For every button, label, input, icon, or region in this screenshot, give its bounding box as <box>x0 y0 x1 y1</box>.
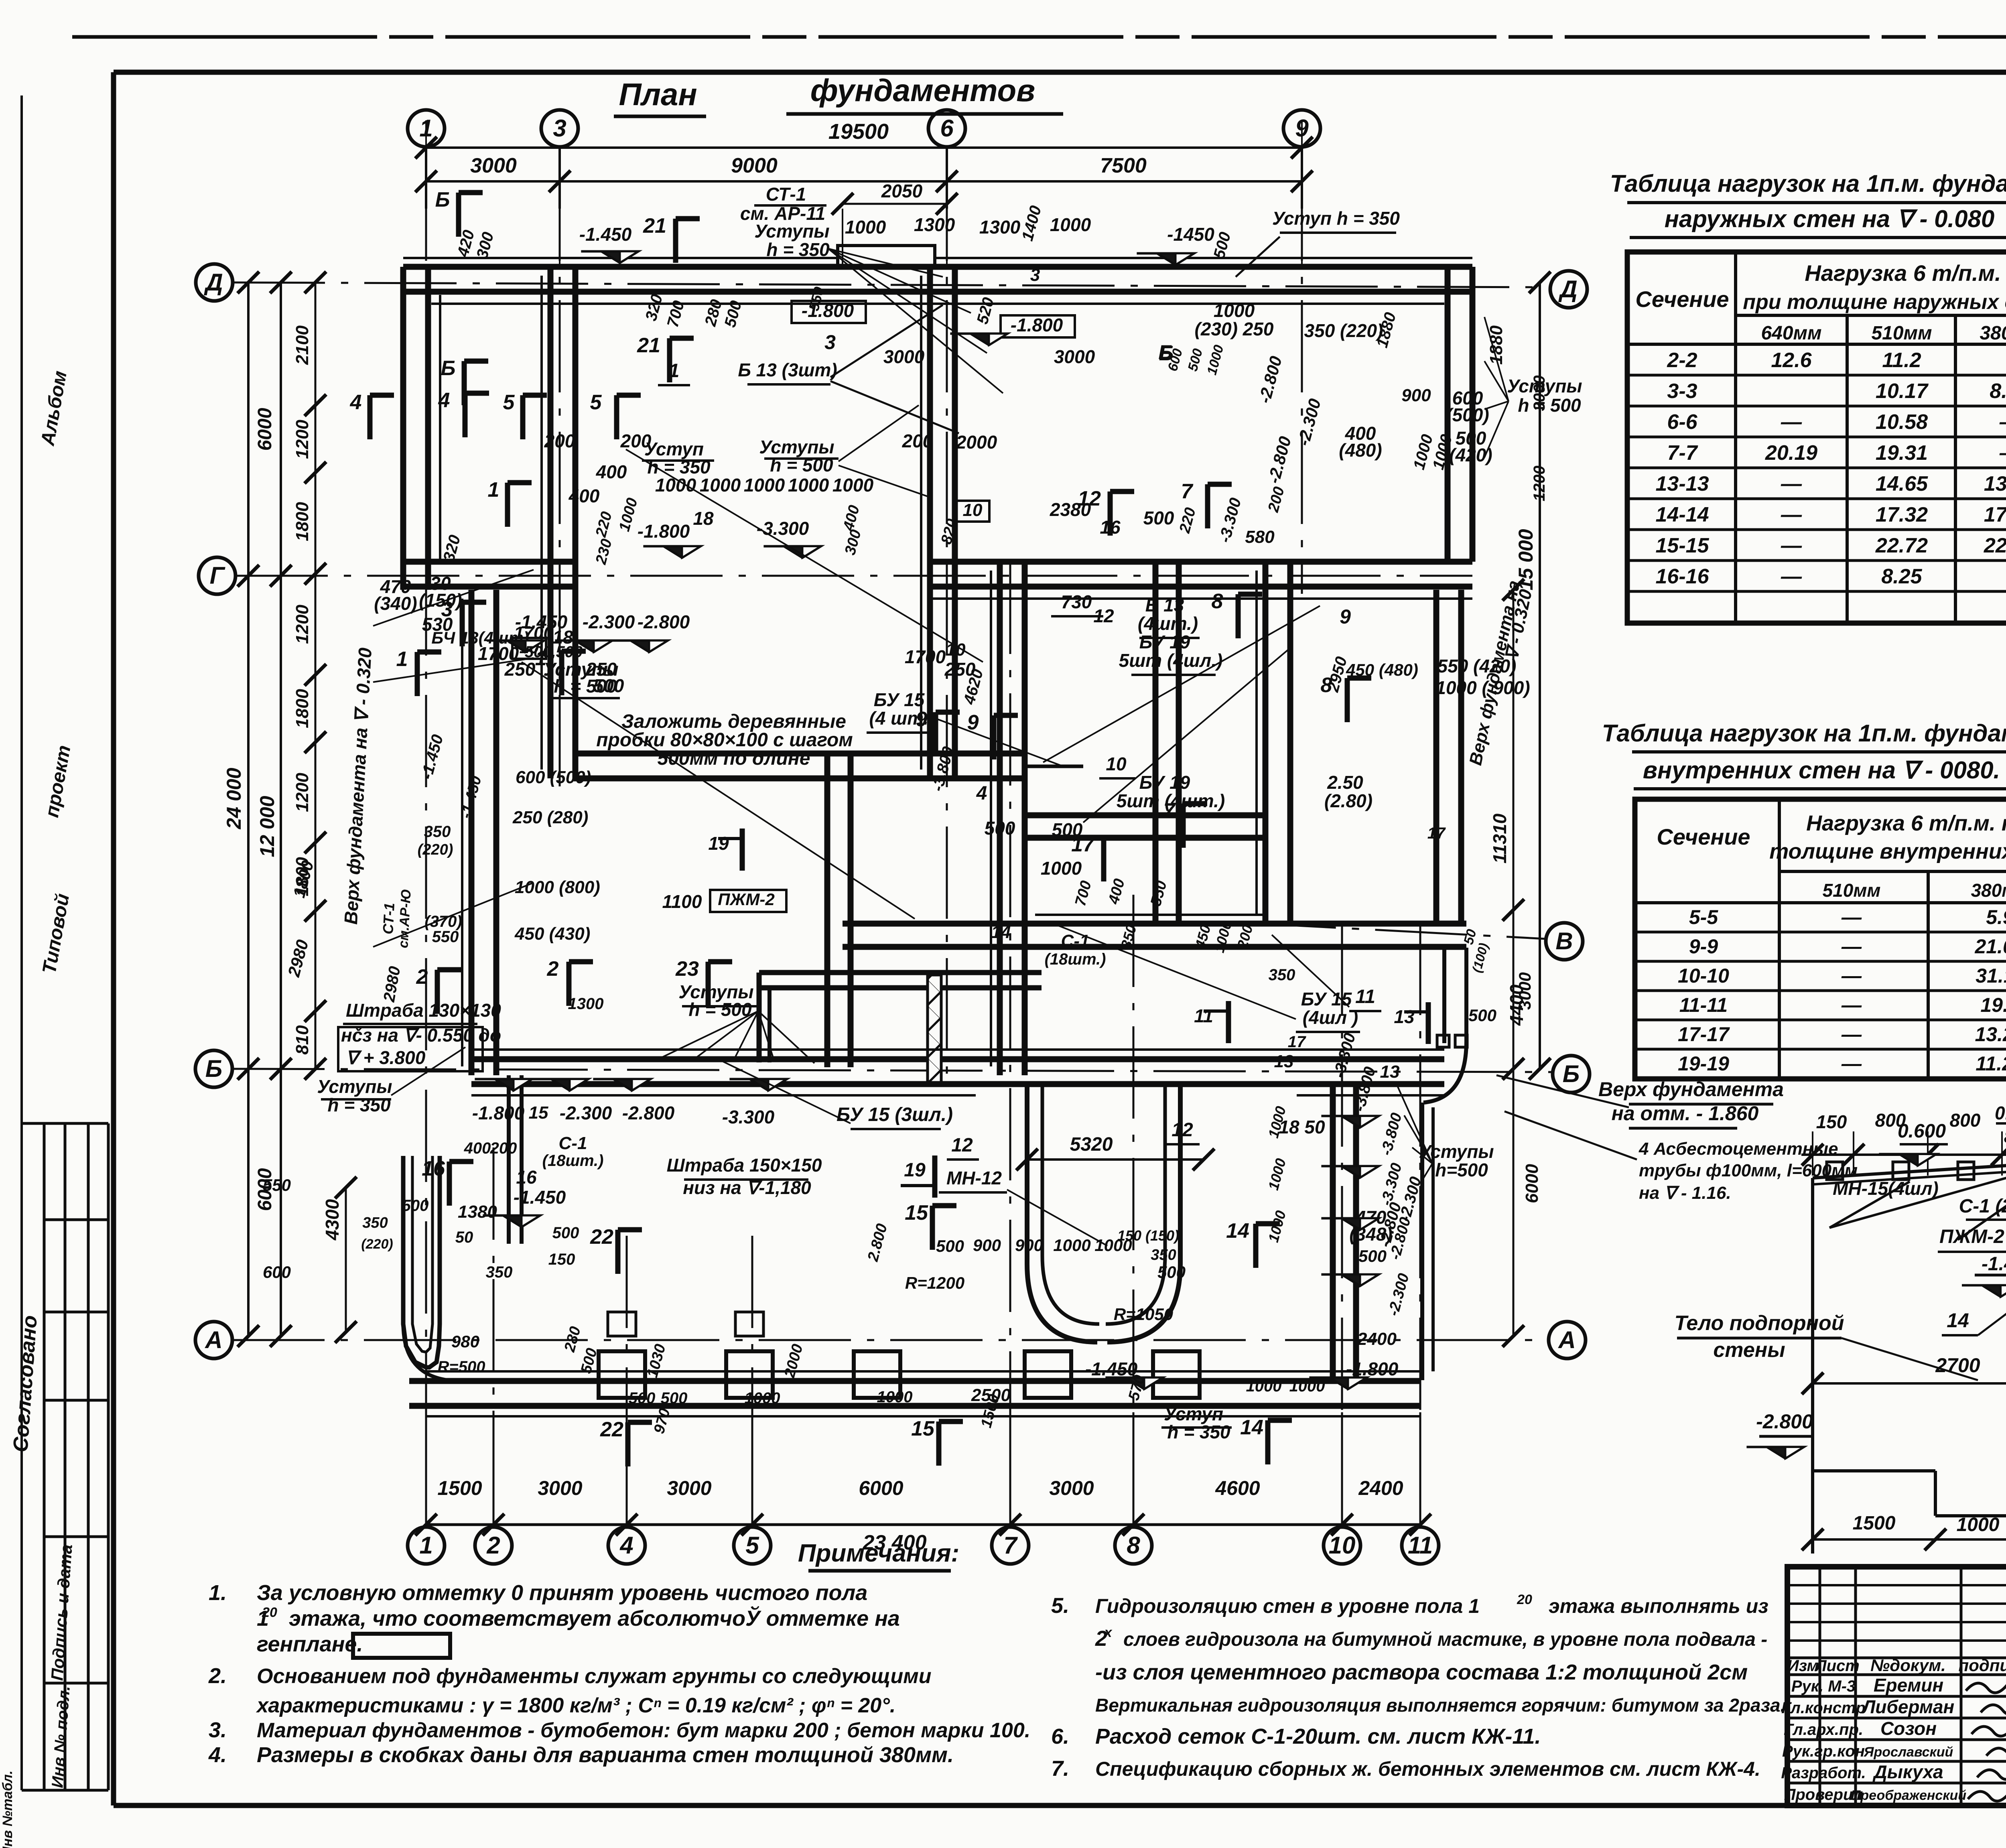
svg-text:3000: 3000 <box>1531 376 1548 411</box>
svg-text:стены: стены <box>1713 1338 1785 1362</box>
svg-text:18: 18 <box>693 508 714 529</box>
svg-text:Тело подпорной: Тело подпорной <box>1674 1312 1844 1335</box>
svg-text:22.72: 22.72 <box>1875 534 1928 557</box>
svg-text:12: 12 <box>1078 487 1101 510</box>
svg-text:-1.800: -1.800 <box>1011 315 1063 335</box>
svg-text:3000: 3000 <box>538 1477 582 1499</box>
svg-text:5: 5 <box>590 391 602 414</box>
svg-text:-1450: -1450 <box>1167 224 1214 245</box>
svg-text:на ∇ - 1.16.: на ∇ - 1.16. <box>1639 1183 1731 1203</box>
svg-text:7.: 7. <box>1051 1757 1069 1781</box>
svg-text:6000: 6000 <box>254 408 276 451</box>
svg-text:-2.300: -2.300 <box>560 1103 612 1123</box>
svg-text:Б: Б <box>441 357 456 380</box>
svg-text:R=1200: R=1200 <box>905 1273 964 1292</box>
svg-text:11: 11 <box>1355 986 1375 1007</box>
svg-text:Материал фундаментов - буто: Материал фундаментов - бутобетон: бут ма… <box>257 1719 1030 1742</box>
svg-text:17: 17 <box>1071 833 1095 856</box>
svg-text:1300: 1300 <box>914 214 955 235</box>
svg-text:220: 220 <box>1176 506 1199 535</box>
svg-text:22: 22 <box>590 1225 613 1249</box>
svg-text:500: 500 <box>1185 347 1206 373</box>
svg-text:10.17: 10.17 <box>1876 380 1929 403</box>
svg-text:Штраба 150×150: Штраба 150×150 <box>667 1155 822 1176</box>
svg-text:2: 2 <box>486 1532 500 1559</box>
svg-text:500: 500 <box>985 818 1015 839</box>
svg-text:1300: 1300 <box>568 995 604 1013</box>
svg-text:х: х <box>1104 1625 1113 1640</box>
svg-text:3-3: 3-3 <box>1667 380 1697 403</box>
svg-text:2: 2 <box>547 957 559 981</box>
svg-text:—: — <box>1781 503 1802 526</box>
svg-text:0.8 50: 0.8 50 <box>1995 1103 2006 1123</box>
svg-text:1: 1 <box>669 360 680 382</box>
svg-text:13: 13 <box>1274 1052 1294 1071</box>
svg-text:400: 400 <box>596 461 627 482</box>
svg-text:(220): (220) <box>418 841 453 858</box>
svg-text:3000: 3000 <box>1049 1477 1094 1499</box>
svg-text:19500: 19500 <box>828 120 889 144</box>
svg-text:Подпись и дата: Подпись и дата <box>47 1544 76 1681</box>
svg-text:h = 350: h = 350 <box>327 1095 391 1115</box>
svg-text:5: 5 <box>503 391 515 414</box>
svg-text:БУ 19: БУ 19 <box>1139 772 1190 793</box>
svg-text:С-1: С-1 <box>559 1133 587 1153</box>
svg-text:0.600: 0.600 <box>1898 1121 1946 1142</box>
svg-text:1800: 1800 <box>292 689 312 728</box>
svg-text:10: 10 <box>963 500 983 520</box>
svg-text:8: 8 <box>1127 1532 1140 1559</box>
svg-text:20: 20 <box>1517 1592 1532 1607</box>
svg-text:350: 350 <box>424 823 451 841</box>
svg-text:380мм: 380мм <box>1971 880 2006 901</box>
svg-text:500: 500 <box>629 1389 656 1407</box>
svg-text:Еремин: Еремин <box>1874 1675 1943 1696</box>
svg-text:8: 8 <box>1212 590 1223 613</box>
svg-text:Б 13: Б 13 <box>1145 595 1184 615</box>
svg-text:В: В <box>1555 928 1573 954</box>
svg-text:13.21: 13.21 <box>1975 1023 2006 1046</box>
svg-text:Б: Б <box>435 188 450 211</box>
svg-text:350: 350 <box>486 1263 513 1281</box>
svg-text:14-14: 14-14 <box>1656 503 1709 526</box>
svg-text:Инв №табл.: Инв №табл. <box>0 1771 15 1848</box>
svg-text:17: 17 <box>1427 824 1446 842</box>
svg-text:-1.800: -1.800 <box>472 1103 525 1123</box>
svg-text:Альбом: Альбом <box>37 369 71 447</box>
svg-text:Расход сеток С-1-20шт. см.: Расход сеток С-1-20шт. см. лист КЖ-11. <box>1095 1724 1541 1748</box>
svg-text:6: 6 <box>940 115 954 142</box>
svg-text:12 000: 12 000 <box>256 796 278 857</box>
svg-text:280: 280 <box>561 1325 584 1354</box>
svg-text:230: 230 <box>593 537 615 567</box>
svg-text:-1.800: -1.800 <box>802 300 854 321</box>
svg-text:1.: 1. <box>209 1581 227 1605</box>
svg-text:20.19: 20.19 <box>1765 441 1817 465</box>
svg-text:9: 9 <box>916 708 928 731</box>
svg-text:21: 21 <box>637 334 660 357</box>
svg-text:Созон: Созон <box>1880 1718 1937 1739</box>
svg-text:-1.450: -1.450 <box>418 733 447 781</box>
svg-text:400: 400 <box>464 1139 491 1157</box>
svg-text:8.75: 8.75 <box>1990 380 2006 403</box>
svg-text:12.6: 12.6 <box>1771 349 1812 372</box>
svg-text:Таблица нагрузок на 1п.м. фун: Таблица нагрузок на 1п.м. фундаментов <box>1602 720 2006 747</box>
svg-text:фундаментов: фундаментов <box>810 73 1035 108</box>
svg-text:трубы ф100мм, l=600мм: трубы ф100мм, l=600мм <box>1639 1161 1858 1180</box>
svg-text:11.29: 11.29 <box>1976 1052 2006 1075</box>
svg-text:19.31: 19.31 <box>1876 441 1928 465</box>
svg-text:19: 19 <box>904 1160 926 1181</box>
svg-text:8.25: 8.25 <box>1881 565 1922 588</box>
svg-text:2100: 2100 <box>292 325 312 365</box>
svg-text:ПЖМ-2: ПЖМ-2 <box>1939 1226 2004 1247</box>
svg-text:500: 500 <box>1143 508 1174 528</box>
svg-text:Инв № подл.: Инв № подл. <box>49 1685 73 1788</box>
svg-text:3.: 3. <box>209 1718 227 1742</box>
svg-text:1500: 1500 <box>1853 1513 1896 1534</box>
svg-text:11: 11 <box>1194 1005 1213 1026</box>
svg-text:1380: 1380 <box>458 1202 497 1222</box>
svg-text:-из слоя цементного раство: -из слоя цементного раствора состава 1:2… <box>1095 1660 1748 1684</box>
svg-text:-1.450: -1.450 <box>1085 1359 1138 1379</box>
svg-text:800: 800 <box>2004 1127 2006 1146</box>
svg-text:(4шт.): (4шт.) <box>1138 613 1198 634</box>
svg-text:10: 10 <box>1106 753 1127 774</box>
svg-text:Размеры в скобках даны: Размеры в скобках даны для варианта стен… <box>257 1743 954 1767</box>
svg-text:6.: 6. <box>1051 1724 1069 1748</box>
svg-text:500: 500 <box>661 1389 688 1407</box>
svg-text:5шт (4шл.): 5шт (4шл.) <box>1119 650 1223 671</box>
svg-text:11-11: 11-11 <box>1679 994 1728 1016</box>
svg-text:5.: 5. <box>1051 1594 1069 1618</box>
svg-text:Основанием под фундаменты: Основанием под фундаменты служат грунты … <box>257 1665 931 1688</box>
svg-text:4: 4 <box>976 783 987 804</box>
svg-text:Нагрузка 6 т/п.м.: Нагрузка 6 т/п.м. <box>1805 260 2001 286</box>
svg-text:15: 15 <box>529 1103 548 1123</box>
svg-text:№докум.: №докум. <box>1870 1656 1946 1675</box>
svg-text:12: 12 <box>951 1135 973 1156</box>
svg-text:1: 1 <box>396 648 408 671</box>
svg-text:1000: 1000 <box>1053 1236 1090 1255</box>
svg-text:Дыкуха: Дыкуха <box>1872 1761 1943 1782</box>
svg-text:4.: 4. <box>208 1743 227 1767</box>
svg-text:Изм: Изм <box>1787 1657 1819 1675</box>
svg-text:R=500: R=500 <box>438 1358 485 1376</box>
svg-text:Гл.констр: Гл.констр <box>1781 1699 1866 1717</box>
svg-text:Б 13 (3шт): Б 13 (3шт) <box>738 359 837 380</box>
svg-text:250 (280): 250 (280) <box>512 808 588 827</box>
svg-text:1400: 1400 <box>1019 204 1045 243</box>
svg-text:МН-12: МН-12 <box>946 1168 1002 1188</box>
svg-text:4300: 4300 <box>322 1199 343 1241</box>
svg-text:1000: 1000 <box>877 1388 913 1406</box>
svg-text:23 400: 23 400 <box>862 1531 926 1554</box>
svg-text:400: 400 <box>569 485 600 506</box>
svg-text:Вертикальная гидроизоляция в: Вертикальная гидроизоляция выполняется г… <box>1095 1695 1785 1716</box>
svg-text:—: — <box>1841 1023 1862 1046</box>
svg-text:слоев гидроизола на битумно: слоев гидроизола на битумной мастике, в … <box>1123 1629 1767 1650</box>
svg-text:-1.450: -1.450 <box>514 1187 566 1208</box>
svg-text:200: 200 <box>1265 485 1288 514</box>
svg-text:1000: 1000 <box>845 217 886 238</box>
svg-text:16: 16 <box>1100 517 1121 538</box>
svg-text:(500): (500) <box>1446 404 1489 425</box>
svg-text:2000: 2000 <box>781 1342 806 1380</box>
svg-text:20: 20 <box>262 1605 277 1620</box>
svg-text:7: 7 <box>1163 799 1176 822</box>
svg-text:h = 500: h = 500 <box>688 999 752 1020</box>
svg-text:Сечение: Сечение <box>1657 824 1750 849</box>
svg-text:-1.800: -1.800 <box>1346 1359 1399 1379</box>
svg-text:1000: 1000 <box>788 475 829 496</box>
svg-text:17: 17 <box>1288 1033 1306 1051</box>
svg-text:h = 350: h = 350 <box>766 239 830 260</box>
svg-text:640мм: 640мм <box>1761 323 1821 344</box>
svg-text:—: — <box>1841 1052 1862 1075</box>
svg-text:500: 500 <box>552 1224 579 1242</box>
svg-text:4: 4 <box>350 391 362 414</box>
svg-text:9: 9 <box>967 711 979 734</box>
svg-text:19-19: 19-19 <box>1678 1052 1729 1075</box>
svg-text:22: 22 <box>600 1418 623 1441</box>
svg-text:810: 810 <box>292 1025 312 1055</box>
svg-text:6-6: 6-6 <box>1667 410 1697 434</box>
svg-text:1030: 1030 <box>644 1342 669 1380</box>
svg-text:2980: 2980 <box>380 965 404 1003</box>
svg-text:6000: 6000 <box>859 1477 903 1499</box>
svg-text:500: 500 <box>936 1237 964 1255</box>
svg-text:3: 3 <box>1030 265 1040 285</box>
svg-text:350: 350 <box>1269 966 1295 984</box>
svg-text:-1.450: -1.450 <box>579 224 632 245</box>
svg-text:22.02: 22.02 <box>1984 534 2006 557</box>
svg-text:(420): (420) <box>1449 445 1492 465</box>
svg-text:13-13: 13-13 <box>1656 472 1709 496</box>
svg-text:БУ 15: БУ 15 <box>1301 989 1352 1009</box>
svg-text:Нагрузка 6 т/п.м. при: Нагрузка 6 т/п.м. при <box>1806 811 2006 835</box>
svg-text:1000: 1000 <box>700 475 741 496</box>
svg-text:11.2: 11.2 <box>1882 349 1921 372</box>
svg-text:-3.300: -3.300 <box>1216 496 1245 544</box>
svg-text:550: 550 <box>1147 879 1170 908</box>
svg-text:С-1: С-1 <box>1061 931 1090 951</box>
svg-text:5320: 5320 <box>1070 1134 1113 1155</box>
svg-text:17.07: 17.07 <box>1984 503 2006 526</box>
svg-text:-3.300: -3.300 <box>757 518 809 539</box>
svg-text:380мм: 380мм <box>1980 323 2006 344</box>
svg-text:500: 500 <box>402 1197 429 1214</box>
svg-text:1000: 1000 <box>745 1389 780 1407</box>
svg-text:1700: 1700 <box>905 646 946 667</box>
svg-text:14: 14 <box>991 922 1011 942</box>
svg-text:-3.300: -3.300 <box>722 1107 775 1127</box>
svg-text:1: 1 <box>488 478 499 502</box>
svg-text:-2.300: -2.300 <box>1385 1271 1412 1318</box>
svg-text:700: 700 <box>1072 879 1095 908</box>
svg-text:1000: 1000 <box>655 475 696 496</box>
svg-text:этажа, что соответствует: этажа, что соответствует абсолютчоЎ отме… <box>289 1606 900 1631</box>
svg-text:2.50: 2.50 <box>1327 772 1363 793</box>
svg-text:1000: 1000 <box>744 475 785 496</box>
svg-text:510мм: 510мм <box>1871 323 1932 344</box>
svg-text:∇ + 3.800: ∇ + 3.800 <box>346 1047 426 1068</box>
svg-text:Уступ h = 350: Уступ h = 350 <box>1272 208 1400 229</box>
svg-text:Разработ.: Разработ. <box>1781 1764 1866 1782</box>
svg-text:3000: 3000 <box>1054 346 1095 367</box>
svg-text:16: 16 <box>422 1157 445 1180</box>
svg-text:1200: 1200 <box>292 773 312 812</box>
svg-text:внутренних стен на ∇ - 0080: внутренних стен на ∇ - 0080. <box>1643 757 2000 784</box>
svg-text:Верх фундамента на ∇ - 0.32: Верх фундамента на ∇ - 0.320 <box>340 647 376 925</box>
svg-text:-1.800: -1.800 <box>638 521 690 542</box>
svg-text:А: А <box>1557 1326 1576 1353</box>
svg-text:7500: 7500 <box>1100 154 1147 177</box>
svg-text:3000: 3000 <box>883 346 925 367</box>
svg-text:2: 2 <box>416 965 428 989</box>
svg-text:10.58: 10.58 <box>1876 410 1928 434</box>
svg-text:200: 200 <box>544 431 575 451</box>
svg-text:17.32: 17.32 <box>1876 503 1928 526</box>
svg-text:(4шл ): (4шл ) <box>1303 1007 1358 1028</box>
svg-text:—: — <box>1781 410 1802 434</box>
svg-text:450 (430): 450 (430) <box>514 924 590 944</box>
svg-text:600: 600 <box>263 1263 291 1281</box>
svg-text:300: 300 <box>842 528 865 557</box>
svg-text:БУ 15 (3шл.): БУ 15 (3шл.) <box>837 1104 953 1125</box>
svg-text:1200: 1200 <box>1531 466 1548 502</box>
svg-text:1880: 1880 <box>1373 311 1400 349</box>
svg-text:Сечение: Сечение <box>1635 286 1729 312</box>
svg-text:23: 23 <box>675 957 699 981</box>
svg-text:24 000: 24 000 <box>223 768 245 829</box>
svg-text:(2.80): (2.80) <box>1324 790 1373 811</box>
svg-text:-2.800: -2.800 <box>1756 1410 1813 1433</box>
svg-text:50: 50 <box>455 1229 473 1246</box>
svg-text:19: 19 <box>708 833 729 854</box>
svg-text:12: 12 <box>1172 1119 1193 1141</box>
svg-text:-2.800: -2.800 <box>622 1103 675 1123</box>
svg-text:-2.800: -2.800 <box>1264 435 1295 485</box>
svg-text:-1.430: -1.430 <box>1982 1253 2006 1275</box>
svg-text:Гидроизоляцию стен в уровне: Гидроизоляцию стен в уровне пола 1 <box>1095 1595 1480 1617</box>
svg-text:Рук. М-3: Рук. М-3 <box>1791 1677 1856 1695</box>
svg-text:16: 16 <box>516 1167 537 1188</box>
svg-text:-3.800: -3.800 <box>1378 1111 1405 1157</box>
svg-text:Штраба 130×130: Штраба 130×130 <box>346 1000 501 1021</box>
svg-text:(340): (340) <box>374 593 417 614</box>
svg-text:—: — <box>1999 441 2006 465</box>
svg-text:1000: 1000 <box>1289 1377 1325 1395</box>
svg-text:Преображенский: Преображенский <box>1851 1788 1966 1803</box>
svg-text:1100: 1100 <box>662 891 702 912</box>
svg-text:970: 970 <box>651 1407 674 1436</box>
svg-text:1: 1 <box>419 1532 432 1559</box>
svg-text:5: 5 <box>745 1532 759 1559</box>
svg-text:10-10: 10-10 <box>1678 965 1729 987</box>
svg-text:5.9: 5.9 <box>1986 906 2006 928</box>
svg-text:500: 500 <box>1358 1247 1387 1265</box>
svg-text:h = 350: h = 350 <box>1167 1422 1230 1442</box>
svg-text:7: 7 <box>1181 480 1194 503</box>
svg-text:Д: Д <box>1558 276 1577 303</box>
svg-text:19.5: 19.5 <box>1980 994 2006 1016</box>
svg-text:350: 350 <box>362 1214 388 1231</box>
svg-text:150: 150 <box>548 1251 575 1268</box>
svg-text:1800: 1800 <box>292 502 312 541</box>
svg-text:—: — <box>1781 534 1802 557</box>
svg-text:13.87: 13.87 <box>1984 472 2006 496</box>
svg-text:500: 500 <box>1157 1263 1186 1281</box>
svg-text:9: 9 <box>1340 605 1351 628</box>
svg-text:1000: 1000 <box>1041 858 1082 879</box>
svg-text:15-15: 15-15 <box>1656 534 1710 557</box>
svg-text:15 000: 15 000 <box>1515 529 1537 590</box>
svg-text:СТ-1: СТ-1 <box>380 902 398 935</box>
svg-text:550: 550 <box>432 928 459 946</box>
svg-text:За условную отметку 0: За условную отметку 0 принят уровень чис… <box>257 1581 867 1605</box>
svg-text:МН-15(4шл): МН-15(4шл) <box>1833 1178 1939 1199</box>
svg-text:550: 550 <box>263 1176 291 1194</box>
svg-text:150: 150 <box>1816 1111 1847 1132</box>
svg-text:2.: 2. <box>208 1664 227 1688</box>
svg-text:1000: 1000 <box>1204 343 1226 377</box>
svg-text:580: 580 <box>1245 527 1275 547</box>
svg-text:толщине внутренних стен.: толщине внутренних стен. <box>1769 839 2006 863</box>
svg-text:План: План <box>619 77 697 112</box>
svg-text:Типовой: Типовой <box>39 892 73 975</box>
svg-text:220: 220 <box>593 510 615 539</box>
svg-text:Согласовано: Согласовано <box>9 1314 42 1453</box>
svg-text:Рук.гр.кон: Рук.гр.кон <box>1782 1742 1865 1760</box>
svg-text:14: 14 <box>1947 1309 1969 1332</box>
svg-text:при толщине наружных стен.: при толщине наружных стен. <box>1743 290 2006 314</box>
svg-text:21: 21 <box>643 214 666 238</box>
svg-text:14.65: 14.65 <box>1876 472 1928 496</box>
svg-text:(18шт.): (18шт.) <box>542 1152 604 1170</box>
svg-text:3: 3 <box>824 331 836 353</box>
svg-text:Ярославский: Ярославский <box>1864 1744 1953 1760</box>
svg-text:-2.300: -2.300 <box>583 611 635 632</box>
svg-text:730: 730 <box>1061 591 1092 612</box>
svg-text:Гл.арх.пр.: Гл.арх.пр. <box>1784 1721 1863 1738</box>
svg-text:Спецификацию сборных ж.: Спецификацию сборных ж. бетонных элемент… <box>1095 1758 1760 1780</box>
svg-text:Либерман: Либерман <box>1862 1696 1955 1717</box>
svg-text:Б: Б <box>1563 1060 1580 1087</box>
svg-text:1200: 1200 <box>292 605 312 644</box>
svg-text:900: 900 <box>1401 386 1431 405</box>
svg-text:Верх фундамента: Верх фундамента <box>1598 1078 1784 1101</box>
svg-text:7-7: 7-7 <box>1667 441 1698 465</box>
svg-text:3000: 3000 <box>1515 972 1534 1009</box>
svg-text:150 (150): 150 (150) <box>1117 1227 1179 1244</box>
svg-text:17-17: 17-17 <box>1678 1023 1730 1046</box>
svg-text:Уступы: Уступы <box>754 221 829 242</box>
svg-text:31.11: 31.11 <box>1976 965 2006 987</box>
svg-text:1000: 1000 <box>1265 1157 1289 1192</box>
svg-text:4: 4 <box>438 389 450 412</box>
svg-text:1000 (800): 1000 (800) <box>515 877 600 897</box>
svg-text:Уступы: Уступы <box>317 1076 392 1097</box>
svg-text:12: 12 <box>1093 605 1114 626</box>
svg-text:900: 900 <box>1015 1236 1043 1255</box>
svg-text:БУ 19: БУ 19 <box>1139 632 1190 652</box>
svg-text:2400: 2400 <box>1357 1329 1397 1349</box>
svg-text:11310: 11310 <box>1489 813 1510 863</box>
svg-text:500: 500 <box>1468 1006 1496 1025</box>
svg-text:800: 800 <box>1950 1110 1981 1131</box>
svg-text:—: — <box>1999 410 2006 434</box>
